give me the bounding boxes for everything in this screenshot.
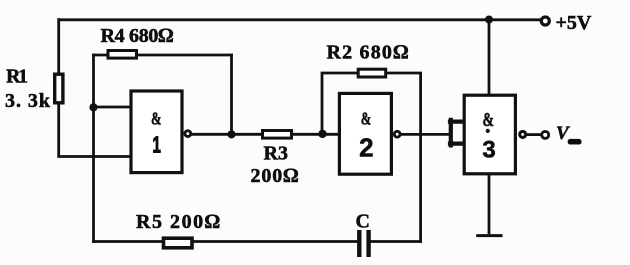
svg-text:R5 200Ω: R5 200Ω [136,211,220,233]
svg-text:&: & [361,109,372,129]
svg-text:1: 1 [152,132,161,158]
resistor R4 [108,51,137,59]
nand gate U2 body [339,93,391,174]
nand gate U3 body [464,95,515,174]
nand gate U1 body [131,91,182,173]
wire: U3 output to Vout terminal [527,133,540,136]
wire: gate 1 upper input [94,106,131,109]
svg-text:&: & [483,109,495,131]
bubble: U3 output [520,131,526,137]
dot between & and 3 (U3) [486,129,490,133]
svg-text:&: & [151,109,162,129]
wire: gate2 output to gate3 inputs [401,133,449,136]
ground [478,234,501,237]
resistor R1 [55,74,63,103]
svg-text:+5V: +5V [556,12,592,34]
node: gate 1 output junction with R4 [227,130,235,138]
wire: R4 right leg down to gate 1 output node [230,55,233,134]
wire: R2 right leg over and down to bottom rail [386,73,421,242]
wire: bottom rail left segment (R5 / C path) [94,240,359,243]
svg-text:R4 680Ω: R4 680Ω [101,25,174,47]
resistor R2 [358,69,386,77]
wire: R4 horizontal run [94,54,232,57]
wire: R1 branch from rail down to gate 1 lower input [59,20,130,157]
wire: gate 3 ground pin [488,174,491,233]
terminal +5V [541,17,549,25]
bubble: U2 output [394,131,400,137]
capacitor C [359,232,368,255]
wire: R2 left leg up from gate 2 input [322,73,358,134]
label Vout [556,123,582,144]
svg-text:C: C [356,211,370,233]
node: gate 2 input junction with R2 [318,130,326,138]
wire: gate 3 power pin from +5V rail [488,20,491,96]
terminal Vout [542,131,549,138]
svg-text:3. 3k: 3. 3k [5,90,51,112]
svg-text:200Ω: 200Ω [251,165,299,187]
wire: top +5V rail [60,18,541,21]
wire: R4 left leg down through gate1 input node to bottom rail [92,55,95,242]
svg-text:3: 3 [482,137,495,164]
wire: U3 tied-inputs bracket [450,120,464,146]
node: gate 1 input junction (R4/R5) [89,103,97,111]
svg-text:R3: R3 [264,143,288,165]
node: junction of +5V rail and gate 3 power pin [485,16,493,24]
bubble: U1 output [185,131,191,137]
resistor R5 [164,238,193,248]
wire: bottom rail right segment from C to R2 leg [371,240,421,243]
wire: gate1 output to gate2 input [192,133,339,136]
svg-text:R2 680Ω: R2 680Ω [327,42,409,64]
resistor R3 [263,131,292,139]
svg-text:R1: R1 [6,66,28,88]
svg-text:2: 2 [359,133,373,163]
